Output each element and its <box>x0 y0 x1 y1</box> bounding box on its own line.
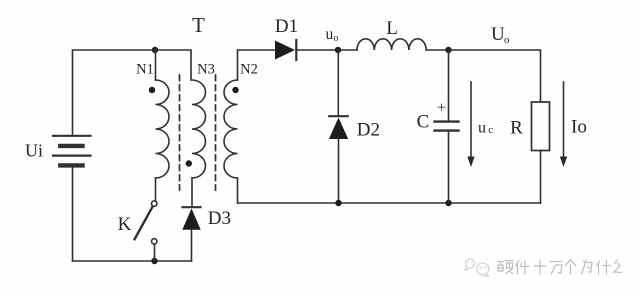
svg-text:U: U <box>491 24 505 45</box>
transformer T winding N1 <box>156 80 170 178</box>
inductor L <box>357 39 426 50</box>
diode D3 cathode bar <box>183 206 201 208</box>
node A junction dot <box>152 47 158 53</box>
current arrow Io line <box>563 82 565 158</box>
wire battery negative down to bottom rail <box>72 167 74 261</box>
char ge (unit) <box>565 260 576 275</box>
junction dot switch bottom on rail <box>151 258 157 264</box>
char wan (ten-thousand) <box>550 262 563 275</box>
wire D1 to node uo <box>296 49 357 51</box>
wire capacitor C to rail <box>448 131 450 203</box>
svg-text:u: u <box>326 26 334 43</box>
svg-text:Ui: Ui <box>25 141 43 161</box>
svg-text:o: o <box>334 33 339 44</box>
wire node A to N3 top lead <box>155 50 191 80</box>
char me <box>614 260 622 273</box>
wire node uo down to D2 <box>337 50 339 116</box>
capacitor C bottom plate <box>435 129 459 131</box>
svg-text:o: o <box>504 34 510 46</box>
diode D1 cathode bar <box>295 40 297 60</box>
switch K blade <box>135 207 153 240</box>
bottom rail secondary side <box>238 202 541 204</box>
polarity dot N2 <box>232 87 238 93</box>
battery Ui plate 3 long <box>53 155 91 157</box>
transformer core dashed line left <box>179 75 181 190</box>
transformer T winding N3 <box>192 80 206 178</box>
char shen (what) <box>597 260 612 275</box>
wire node B to load R top <box>449 50 541 102</box>
node B junction dot <box>445 47 451 53</box>
svg-text:N2: N2 <box>240 62 258 78</box>
wire N1 top lead <box>155 50 157 80</box>
svg-text:C: C <box>417 112 430 133</box>
svg-text:D3: D3 <box>208 208 231 229</box>
battery Ui plate 1 long <box>53 135 91 137</box>
bottom rail primary side <box>73 260 192 262</box>
diode D1 triangle <box>275 41 295 60</box>
wire R bottom to rail <box>540 151 542 204</box>
wire N3 bottom to D3 <box>191 178 193 207</box>
transformer core dashed line right <box>215 75 217 190</box>
node uo junction dot <box>335 47 341 53</box>
char shi (ten) <box>534 260 547 275</box>
wire N2 bottom lead <box>237 178 239 203</box>
polarity dot N3 <box>186 160 192 166</box>
svg-text:T: T <box>192 13 205 37</box>
wire node B down to capacitor C <box>448 50 450 121</box>
svg-text:L: L <box>386 18 398 39</box>
battery Ui plate 2 short thick <box>60 144 82 148</box>
svg-text:+: + <box>437 100 446 117</box>
svg-text:D1: D1 <box>275 16 298 37</box>
battery Ui plate 4 short thick <box>60 163 82 167</box>
svg-text:N3: N3 <box>197 62 215 78</box>
polarity dot N1 <box>149 87 155 93</box>
transformer T winding N2 <box>224 80 238 178</box>
junction dot D2 on rail <box>335 200 341 206</box>
svg-text:Io: Io <box>571 117 587 138</box>
diode D2 triangle <box>329 118 348 140</box>
diode D2 cathode bar <box>329 115 348 117</box>
switch K bottom contact circle <box>152 239 157 244</box>
char ying (hard) <box>498 261 514 275</box>
capacitor C top plate <box>435 120 459 122</box>
diode D3 triangle <box>182 209 200 230</box>
wire D2 anode to rail <box>338 139 340 203</box>
current arrow Io head <box>560 157 567 168</box>
svg-text:u: u <box>478 119 486 136</box>
wire switch to rail <box>154 245 156 261</box>
switch K top contact circle <box>152 201 157 206</box>
char jian (piece) <box>516 261 530 275</box>
watermark text strokes (simplified CJK) <box>498 260 623 275</box>
svg-text:D2: D2 <box>357 120 380 141</box>
voltage arrow uc head <box>467 157 474 168</box>
wire N1 bottom to switch <box>155 178 157 201</box>
svg-text:N1: N1 <box>136 62 154 78</box>
svg-text:K: K <box>118 214 132 235</box>
wire D3 anode to rail <box>191 230 193 261</box>
watermark icon chat bubbles <box>465 259 489 277</box>
char wei (for) <box>582 260 593 275</box>
wire N2 top lead to D1 <box>238 50 276 80</box>
svg-text:c: c <box>488 124 493 136</box>
voltage arrow uc line <box>470 82 472 158</box>
wire battery positive up to top rail and node A <box>73 50 156 136</box>
svg-text:R: R <box>510 118 523 139</box>
junction dot C on rail <box>445 200 451 206</box>
wire L to node B <box>426 49 448 51</box>
resistor R body <box>532 102 550 151</box>
